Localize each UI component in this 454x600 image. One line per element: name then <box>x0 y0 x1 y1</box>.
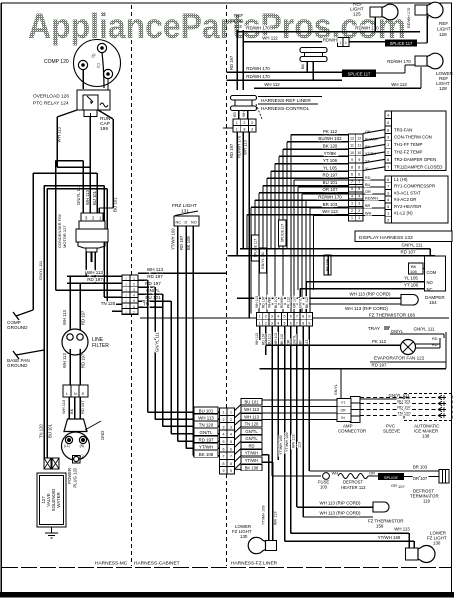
svg-text:YT/WH 169: YT/WH 169 <box>378 535 401 540</box>
svg-text:113: 113 <box>298 442 302 448</box>
svg-text:RD 197: RD 197 <box>397 405 411 410</box>
svg-text:BK: BK <box>69 408 74 414</box>
svg-text:8: 8 <box>351 165 353 169</box>
svg-text:BK 112: BK 112 <box>305 297 309 308</box>
svg-text:3: 3 <box>387 191 389 195</box>
svg-text:3: 3 <box>271 321 273 325</box>
svg-text:WH 113: WH 113 <box>244 414 259 419</box>
svg-text:12: 12 <box>350 137 354 141</box>
svg-text:OK: OK <box>365 130 371 134</box>
svg-text:WH 113 (RIP CORD): WH 113 (RIP CORD) <box>319 501 361 506</box>
svg-text:EVAPORATOR FAN 122: EVAPORATOR FAN 122 <box>374 356 425 361</box>
svg-text:RD 197: RD 197 <box>372 363 387 368</box>
svg-text:6: 6 <box>133 305 135 309</box>
svg-text:GN/YL: GN/YL <box>391 329 404 334</box>
svg-text:HARNESS-REF LINER: HARNESS-REF LINER <box>261 98 311 104</box>
svg-text:7: 7 <box>296 321 298 325</box>
svg-text:103: 103 <box>320 485 328 490</box>
svg-text:RD/WH: RD/WH <box>323 38 337 43</box>
svg-text:RD 197: RD 197 <box>261 333 265 345</box>
svg-text:REF: REF <box>234 13 243 18</box>
svg-text:PLUG: PLUG <box>231 19 244 24</box>
svg-text:3: 3 <box>387 136 389 140</box>
svg-text:107: 107 <box>398 484 405 489</box>
svg-text:HARNESS-CONTROL: HARNESS-CONTROL <box>261 106 310 112</box>
svg-text:5: 5 <box>283 321 285 325</box>
svg-text:NO: NO <box>427 280 434 285</box>
svg-text:SPLICE 117: SPLICE 117 <box>390 41 413 46</box>
svg-text:YT: YT <box>365 160 371 164</box>
svg-text:GN/YL 111: GN/YL 111 <box>155 331 160 352</box>
svg-text:123: 123 <box>234 24 242 29</box>
svg-text:TN 120: TN 120 <box>39 424 44 438</box>
svg-text:2: 2 <box>265 315 267 319</box>
svg-text:RD/WH 170: RD/WH 170 <box>246 26 270 31</box>
svg-text:RD/WH: RD/WH <box>280 296 284 308</box>
svg-text:PLUG 120: PLUG 120 <box>73 467 78 487</box>
svg-text:3: 3 <box>223 425 225 429</box>
svg-text:RD/WH 170: RD/WH 170 <box>246 66 270 71</box>
svg-text:6: 6 <box>351 173 353 177</box>
svg-text:RD: RD <box>248 443 254 448</box>
svg-text:8: 8 <box>387 128 389 132</box>
svg-text:TH2-FZ TEMP: TH2-FZ TEMP <box>394 150 423 155</box>
svg-text:WH: WH <box>426 12 430 19</box>
svg-text:BU 101: BU 101 <box>113 197 118 212</box>
svg-text:4: 4 <box>230 433 232 437</box>
svg-text:GN/TL: GN/TL <box>245 436 258 441</box>
svg-text:9: 9 <box>230 469 232 473</box>
svg-text:N: N <box>74 392 77 396</box>
svg-text:7: 7 <box>387 165 389 169</box>
svg-text:RD: RD <box>432 337 438 341</box>
svg-text:OR 107: OR 107 <box>322 187 338 192</box>
svg-text:4: 4 <box>223 433 225 437</box>
svg-text:10: 10 <box>350 151 354 155</box>
svg-text:3: 3 <box>251 121 253 125</box>
svg-text:VALVE: VALVE <box>46 493 51 507</box>
svg-text:1: 1 <box>387 143 389 147</box>
svg-text:9: 9 <box>351 158 353 162</box>
svg-text:TR11DAMPER CLOSED: TR11DAMPER CLOSED <box>394 164 442 169</box>
svg-text:BU/WH: BU/WH <box>365 137 378 141</box>
svg-text:OR: OR <box>365 190 371 194</box>
svg-text:1: 1 <box>223 411 225 415</box>
svg-text:BR 103: BR 103 <box>323 202 338 207</box>
svg-text:(C): (C) <box>96 63 101 68</box>
svg-text:BK 108: BK 108 <box>186 236 191 250</box>
svg-text:BR: BR <box>365 204 371 208</box>
svg-text:RD: RD <box>432 343 438 347</box>
svg-text:NC: NC <box>427 287 433 292</box>
svg-text:BK 108: BK 108 <box>199 452 214 457</box>
svg-text:2: 2 <box>265 321 267 325</box>
svg-text:LIGHT: LIGHT <box>437 27 451 32</box>
svg-text:125: 125 <box>353 12 361 17</box>
svg-text:DEFROST: DEFROST <box>343 480 363 485</box>
svg-text:1: 1 <box>351 216 353 220</box>
svg-text:YT/WH 169: YT/WH 169 <box>171 228 176 250</box>
svg-text:GN/TL: GN/TL <box>200 430 213 435</box>
svg-text:RD 197: RD 197 <box>229 55 234 70</box>
svg-text:TN 120: TN 120 <box>101 301 116 306</box>
svg-text:4: 4 <box>133 294 135 298</box>
svg-text:(N): (N) <box>80 444 84 448</box>
svg-text:7: 7 <box>387 185 389 189</box>
svg-text:WH 113: WH 113 <box>147 267 164 272</box>
svg-text:BU 101: BU 101 <box>48 423 53 438</box>
svg-text:MOTOR 127: MOTOR 127 <box>62 225 67 248</box>
svg-text:SPLICE: SPLICE <box>384 475 399 480</box>
svg-text:BU/WH 102: BU/WH 102 <box>318 136 342 141</box>
svg-text:11: 11 <box>357 144 361 148</box>
svg-text:4: 4 <box>358 194 360 198</box>
svg-text:127: 127 <box>41 496 46 504</box>
svg-text:108: 108 <box>410 269 417 274</box>
svg-text:5: 5 <box>358 187 360 191</box>
svg-text:YT/WH 169: YT/WH 169 <box>279 435 283 455</box>
svg-text:WH 113: WH 113 <box>87 270 104 275</box>
svg-text:YT/WH: YT/WH <box>245 458 259 463</box>
svg-text:1: 1 <box>387 212 389 216</box>
svg-text:D: D <box>185 221 188 225</box>
svg-text:3: 3 <box>351 202 353 206</box>
svg-text:9: 9 <box>308 315 310 319</box>
svg-text:8: 8 <box>230 462 232 466</box>
svg-text:GN/YL: GN/YL <box>334 384 338 395</box>
svg-text:GND: GND <box>100 431 105 440</box>
svg-text:130: 130 <box>433 541 441 546</box>
svg-text:3: 3 <box>271 315 273 319</box>
svg-text:HARNESS-MC: HARNESS-MC <box>95 561 128 567</box>
svg-text:3: 3 <box>230 425 232 429</box>
svg-text:CONNECTOR: CONNECTOR <box>338 429 366 434</box>
svg-text:2: 2 <box>223 418 225 422</box>
svg-text:RD: RD <box>233 112 237 117</box>
svg-text:2: 2 <box>351 209 353 213</box>
svg-text:YT 106: YT 106 <box>404 283 419 288</box>
svg-text:154: 154 <box>429 300 437 305</box>
svg-text:2: 2 <box>244 121 246 125</box>
svg-text:NC: NC <box>176 221 182 225</box>
svg-text:TR2-DAMPER OPEN: TR2-DAMPER OPEN <box>394 157 436 162</box>
svg-text:4: 4 <box>277 321 279 325</box>
svg-text:TN 120: TN 120 <box>397 411 411 416</box>
svg-text:128: 128 <box>439 86 447 91</box>
svg-text:8: 8 <box>302 315 304 319</box>
svg-text:BU: BU <box>365 183 371 187</box>
svg-text:5: 5 <box>133 299 135 303</box>
svg-text:RD/WH 170: RD/WH 170 <box>318 195 342 200</box>
svg-text:YT 106: YT 106 <box>323 158 338 163</box>
svg-text:5: 5 <box>387 205 389 209</box>
svg-text:7: 7 <box>133 310 135 314</box>
svg-text:TN 120: TN 120 <box>245 421 259 426</box>
svg-text:FZ THERMISTOR 166: FZ THERMISTOR 166 <box>369 313 415 318</box>
svg-text:BU 101: BU 101 <box>245 399 260 404</box>
svg-text:#3-AC1 STAT: #3-AC1 STAT <box>394 190 421 195</box>
svg-text:BU 101: BU 101 <box>92 190 97 205</box>
svg-text:(L1): (L1) <box>64 444 70 448</box>
svg-text:HARNESS-FZ LINER: HARNESS-FZ LINER <box>231 561 278 567</box>
svg-text:HEATER 113: HEATER 113 <box>341 485 366 490</box>
svg-text:4: 4 <box>351 194 353 198</box>
svg-text:6: 6 <box>223 447 225 451</box>
svg-text:1: 1 <box>236 128 238 132</box>
svg-text:WH 113: WH 113 <box>322 209 338 214</box>
svg-text:YT/WH 169: YT/WH 169 <box>285 432 289 452</box>
svg-text:GN/YL 111: GN/YL 111 <box>261 252 265 269</box>
svg-text:8: 8 <box>244 128 246 132</box>
svg-text:2: 2 <box>387 218 389 222</box>
svg-text:RD 197: RD 197 <box>87 277 103 282</box>
svg-text:1: 1 <box>259 321 261 325</box>
svg-text:L1 (HI): L1 (HI) <box>394 177 408 182</box>
svg-text:BK: BK <box>301 63 305 69</box>
svg-text:WH 113 (RIP CORD): WH 113 (RIP CORD) <box>349 292 391 297</box>
svg-text:YT/WH: YT/WH <box>199 445 213 450</box>
svg-text:RD 197: RD 197 <box>147 274 163 279</box>
svg-text:WH 113: WH 113 <box>62 353 67 368</box>
svg-text:IN: IN <box>341 416 345 420</box>
svg-text:(C): (C) <box>80 455 84 459</box>
svg-text:WATER: WATER <box>56 492 61 507</box>
svg-text:L: L <box>66 392 68 396</box>
svg-text:1: 1 <box>133 277 135 281</box>
svg-text:4: 4 <box>387 113 389 117</box>
svg-text:GN/YL 111: GN/YL 111 <box>402 243 423 248</box>
svg-text:10: 10 <box>357 151 361 155</box>
svg-text:YT/BK: YT/BK <box>324 151 337 156</box>
svg-text:GN/TL: GN/TL <box>245 429 258 434</box>
svg-text:DISPLAY HARNESS 133: DISPLAY HARNESS 133 <box>359 235 413 241</box>
svg-text:RD/WH 170: RD/WH 170 <box>387 59 411 64</box>
svg-text:TH1-FF TEMP: TH1-FF TEMP <box>394 142 423 147</box>
svg-text:4: 4 <box>387 198 389 202</box>
svg-text:7: 7 <box>296 315 298 319</box>
svg-text:RD 197: RD 197 <box>80 400 85 414</box>
svg-text:OR 107: OR 107 <box>413 476 428 481</box>
svg-text:TR3-FAN: TR3-FAN <box>394 127 412 132</box>
svg-text:WH 112: WH 112 <box>264 82 280 87</box>
svg-text:5: 5 <box>230 440 232 444</box>
svg-text:RD/WH: RD/WH <box>365 197 378 201</box>
svg-text:RD 197: RD 197 <box>179 235 184 250</box>
svg-text:6: 6 <box>387 158 389 162</box>
svg-text:GN/YL 111: GN/YL 111 <box>76 184 81 205</box>
svg-text:6: 6 <box>290 321 292 325</box>
svg-text:GROUND: GROUND <box>7 363 28 368</box>
svg-text:RD 107: RD 107 <box>401 250 416 255</box>
svg-text:156: 156 <box>376 524 384 529</box>
svg-text:9: 9 <box>223 469 225 473</box>
svg-text:113: 113 <box>305 339 309 345</box>
svg-text:1: 1 <box>236 121 238 125</box>
svg-text:BK 120: BK 120 <box>323 144 338 149</box>
svg-text:RD/WH 170: RD/WH 170 <box>237 135 242 158</box>
svg-text:YL 105: YL 105 <box>404 276 418 281</box>
svg-text:9: 9 <box>308 321 310 325</box>
svg-text:SPLICE 117: SPLICE 117 <box>348 71 371 76</box>
svg-text:RD: RD <box>365 176 371 180</box>
svg-text:8: 8 <box>302 321 304 325</box>
svg-text:119: 119 <box>423 499 431 504</box>
svg-text:CON-THERM CON: CON-THERM CON <box>394 135 432 140</box>
svg-text:PTC RELAY 124: PTC RELAY 124 <box>33 101 69 107</box>
svg-text:GN/YL 111: GN/YL 111 <box>38 260 43 280</box>
svg-text:WH 113: WH 113 <box>62 310 67 325</box>
svg-text:OR: OR <box>286 339 290 345</box>
svg-text:12: 12 <box>357 137 361 141</box>
svg-text:WH 113: WH 113 <box>394 527 410 532</box>
svg-text:2: 2 <box>133 282 135 286</box>
svg-text:9: 9 <box>358 158 360 162</box>
svg-text:5: 5 <box>223 440 225 444</box>
svg-text:WH 113 (RIP CORD): WH 113 (RIP CORD) <box>345 306 388 311</box>
svg-text:WH 113: WH 113 <box>243 140 248 155</box>
svg-text:PK 112: PK 112 <box>286 297 290 308</box>
svg-text:WH 102: WH 102 <box>274 333 278 345</box>
svg-text:WH 113: WH 113 <box>198 416 214 421</box>
svg-text:FRZ LIGHT: FRZ LIGHT <box>172 203 197 209</box>
svg-text:FZ THERMISTOR: FZ THERMISTOR <box>368 519 403 524</box>
svg-text:RD/WH 170: RD/WH 170 <box>407 8 411 28</box>
svg-text:WH 113: WH 113 <box>255 333 259 345</box>
svg-text:WH 113: WH 113 <box>61 399 66 414</box>
svg-text:199: 199 <box>100 126 108 132</box>
svg-text:3: 3 <box>133 288 135 292</box>
svg-text:YL 105: YL 105 <box>323 165 337 170</box>
svg-text:6: 6 <box>358 173 360 177</box>
svg-text:1: 1 <box>230 411 232 415</box>
svg-text:WH 113: WH 113 <box>274 512 278 525</box>
svg-text:WH 112: WH 112 <box>262 36 278 41</box>
svg-text:WH 113: WH 113 <box>244 407 259 412</box>
svg-text:5: 5 <box>283 315 285 319</box>
svg-text:GN/YL 111: GN/YL 111 <box>414 327 435 332</box>
svg-text:PK 112: PK 112 <box>372 339 387 344</box>
svg-text:7: 7 <box>223 455 225 459</box>
svg-text:SPLICE 117: SPLICE 117 <box>281 224 285 243</box>
svg-text:2: 2 <box>358 209 360 213</box>
svg-text:6: 6 <box>290 315 292 319</box>
svg-text:6: 6 <box>387 178 389 182</box>
svg-text:8: 8 <box>358 165 360 169</box>
svg-text:WH: WH <box>365 212 372 216</box>
svg-text:OR 107: OR 107 <box>293 296 297 308</box>
svg-text:OR: OR <box>391 483 397 488</box>
svg-text:#4-AC2 DR: #4-AC2 DR <box>394 197 416 202</box>
svg-text:WH 113 (RIP CORD): WH 113 (RIP CORD) <box>319 511 361 516</box>
svg-text:BU 101: BU 101 <box>274 297 278 308</box>
svg-text:2: 2 <box>387 151 389 155</box>
svg-text:COMP 120: COMP 120 <box>44 59 69 65</box>
svg-text:WH 113: WH 113 <box>292 435 296 448</box>
svg-text:TN 120: TN 120 <box>199 423 214 428</box>
svg-text:GROUND: GROUND <box>7 325 28 330</box>
svg-text:5: 5 <box>351 187 353 191</box>
svg-text:5: 5 <box>387 121 389 125</box>
svg-text:RD 197: RD 197 <box>199 437 214 442</box>
svg-text:1: 1 <box>259 315 261 319</box>
svg-text:BU 101: BU 101 <box>397 399 411 404</box>
svg-text:4: 4 <box>277 315 279 319</box>
svg-text:RY2-HEATER: RY2-HEATER <box>394 204 421 209</box>
svg-text:NO: NO <box>191 221 197 225</box>
svg-text:#1-L2 (N): #1-L2 (N) <box>394 211 413 216</box>
svg-text:OR: OR <box>340 409 346 413</box>
svg-text:BK 108: BK 108 <box>245 465 259 470</box>
svg-text:130: 130 <box>240 534 248 539</box>
svg-text:YT: YT <box>341 401 345 405</box>
svg-text:BU 101: BU 101 <box>199 408 214 413</box>
svg-text:GN/YL: GN/YL <box>293 335 297 345</box>
svg-text:WH 113: WH 113 <box>85 190 90 205</box>
svg-text:BK 112: BK 112 <box>280 334 284 345</box>
svg-text:1: 1 <box>340 41 342 45</box>
svg-text:BU 101: BU 101 <box>268 334 272 345</box>
svg-text:COM: COM <box>427 270 437 275</box>
svg-text:YT/WH 169: YT/WH 169 <box>262 505 266 525</box>
svg-text:YT/BK: YT/BK <box>365 152 376 156</box>
svg-text:WH: WH <box>242 111 246 117</box>
svg-text:RD 197: RD 197 <box>323 173 338 178</box>
svg-text:WH/BK: WH/BK <box>268 296 272 308</box>
svg-text:WH 113: WH 113 <box>255 296 259 308</box>
svg-text:OVERLOAD 126: OVERLOAD 126 <box>33 94 69 100</box>
svg-text:SOLENOID: SOLENOID <box>51 489 56 512</box>
svg-text:WH 113: WH 113 <box>391 82 407 87</box>
svg-text:WH 113: WH 113 <box>57 126 62 142</box>
svg-text:RY1-COMPRESSPR: RY1-COMPRESSPR <box>394 184 435 189</box>
svg-text:RD/WH 170: RD/WH 170 <box>246 74 270 79</box>
svg-text:BR 103: BR 103 <box>413 465 428 470</box>
svg-text:1: 1 <box>345 41 347 45</box>
svg-text:YT/WH: YT/WH <box>245 450 259 455</box>
svg-text:8: 8 <box>223 462 225 466</box>
svg-text:128: 128 <box>439 32 447 37</box>
svg-text:YL: YL <box>365 167 370 171</box>
svg-text:FILTER: FILTER <box>92 343 109 349</box>
svg-text:RD 197: RD 197 <box>81 310 86 325</box>
svg-text:1: 1 <box>358 216 360 220</box>
svg-text:REF: REF <box>439 21 448 26</box>
svg-text:BK: BK <box>365 145 371 149</box>
svg-text:POWER: POWER <box>67 468 72 484</box>
svg-text:PK 112: PK 112 <box>323 129 338 134</box>
svg-text:3: 3 <box>251 128 253 132</box>
svg-text:RD 197: RD 197 <box>229 143 234 158</box>
svg-text:BR: BR <box>299 340 303 345</box>
svg-text:11: 11 <box>350 144 354 148</box>
svg-text:7: 7 <box>230 455 232 459</box>
svg-text:SLEEVE: SLEEVE <box>383 429 400 434</box>
svg-text:RD 197: RD 197 <box>261 296 265 308</box>
svg-text:GN/YL: GN/YL <box>299 298 303 308</box>
svg-text:138: 138 <box>422 434 430 439</box>
svg-text:6: 6 <box>230 447 232 451</box>
svg-text:2: 2 <box>230 418 232 422</box>
svg-text:HARNESS-CABINET: HARNESS-CABINET <box>134 561 180 567</box>
svg-text:TRAY: TRAY <box>368 326 380 331</box>
svg-text:3: 3 <box>358 202 360 206</box>
svg-text:RD 197: RD 197 <box>81 353 86 368</box>
